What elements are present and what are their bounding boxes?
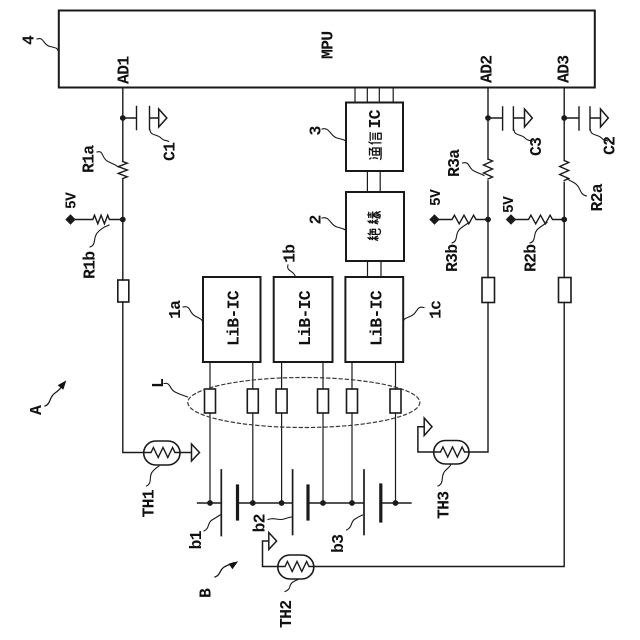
isolator box 2 — [346, 192, 404, 261]
svg-text:R2a: R2a — [588, 183, 607, 211]
svg-text:b3: b3 — [329, 534, 348, 553]
resistor R3a — [484, 159, 493, 179]
ground arrow of C2 — [601, 109, 609, 127]
bus comm IC to isolator — [367, 171, 380, 192]
svg-text:TH1: TH1 — [140, 489, 159, 517]
leader TH2 — [285, 580, 298, 592]
MPU box 4 — [59, 11, 595, 88]
leader C2 — [591, 130, 608, 141]
kanji en — [368, 212, 381, 224]
thermistor TH2 — [278, 555, 314, 579]
leader 1c — [403, 307, 424, 321]
capacitor C2 — [567, 107, 601, 130]
filter resistor box AD3 branch — [559, 278, 572, 303]
TH1 zigzag — [144, 448, 180, 458]
ground arrow of C1 — [159, 109, 167, 127]
TH3 lead and arrow — [418, 418, 434, 452]
svg-text:1b: 1b — [281, 244, 300, 263]
ground arrow of C3 — [525, 109, 533, 127]
leader 1b — [288, 265, 296, 277]
leader R1b — [90, 225, 109, 247]
arrow B head — [229, 561, 239, 569]
arrow B squiggle — [215, 563, 234, 577]
arrow A head — [58, 380, 67, 389]
svg-text:C1: C1 — [161, 142, 180, 161]
svg-text:R3b: R3b — [443, 244, 462, 272]
wire AD2 vertical — [469, 89, 488, 453]
svg-text:LiB-IC: LiB-IC — [296, 290, 315, 346]
thermistor TH1 — [144, 441, 180, 465]
leader 2 — [322, 218, 346, 231]
leader R3a — [463, 163, 485, 176]
battery b1 short plate — [236, 486, 239, 519]
resistor R1b — [76, 215, 123, 224]
fuse rect 4 — [318, 389, 329, 413]
svg-text:1c: 1c — [427, 301, 446, 319]
resistor R2b — [516, 215, 564, 224]
5V diamond supply right — [506, 214, 516, 224]
svg-text:TH3: TH3 — [435, 491, 454, 519]
filter resistor box AD2 branch — [482, 278, 495, 303]
svg-text:TH2: TH2 — [277, 601, 296, 628]
bus isolator to LiB-IC — [368, 261, 382, 277]
LiB-IC box 1b — [274, 277, 333, 362]
svg-text:5V: 5V — [65, 192, 81, 209]
kanji 通信 in comm IC — [366, 109, 385, 159]
svg-text:5V: 5V — [502, 196, 518, 213]
wires LiB-IC leads to fuse rects — [210, 362, 396, 389]
resistor R2a — [560, 161, 569, 181]
comm IC box 3 — [346, 103, 403, 172]
resistor R1a — [118, 162, 127, 179]
svg-text:2: 2 — [307, 215, 326, 224]
fuse rect 2 — [247, 389, 258, 413]
svg-text:1a: 1a — [166, 300, 185, 319]
battery bus wires — [198, 502, 412, 504]
leader C3 — [514, 130, 532, 142]
kanji zetsu — [368, 229, 380, 240]
kanji zetsuen in isolator — [368, 212, 381, 241]
leader b1 — [204, 515, 220, 531]
kanji tsu — [370, 148, 382, 160]
svg-text:5V: 5V — [429, 189, 445, 206]
thermistor TH3 — [434, 441, 469, 465]
leader R2a — [567, 179, 587, 197]
battery b2 long plate — [292, 470, 294, 535]
node R3b junction — [485, 217, 491, 223]
svg-text:AD3: AD3 — [555, 55, 574, 83]
svg-text:B: B — [197, 588, 216, 598]
svg-text:LiB-IC: LiB-IC — [368, 290, 387, 346]
svg-text:R2b: R2b — [522, 244, 541, 272]
fuse rect 1 — [205, 389, 216, 413]
svg-text:LiB-IC: LiB-IC — [225, 290, 244, 346]
node AD2/C3 junction — [485, 115, 491, 121]
svg-text:MPU: MPU — [319, 32, 338, 59]
battery b2 short plate — [306, 486, 309, 519]
leader C1 — [150, 130, 169, 142]
svg-text:3: 3 — [307, 126, 326, 136]
TH1 arrow — [180, 444, 200, 461]
svg-text:AD1: AD1 — [115, 56, 134, 84]
leader R3b — [452, 223, 469, 244]
LiB-IC box 1a — [203, 277, 261, 362]
svg-text:4: 4 — [20, 35, 39, 45]
wires fuse rects to battery bus — [210, 413, 396, 503]
resistor R3b — [440, 215, 488, 224]
filter resistor box AD1 branch — [118, 280, 129, 302]
svg-text:R1a: R1a — [80, 145, 99, 173]
kanji shin — [369, 133, 381, 145]
svg-text:C3: C3 — [527, 137, 546, 156]
node R2b junction — [561, 217, 567, 223]
svg-text:b2: b2 — [251, 514, 270, 532]
wire AD3 vertical and bottom run — [314, 89, 564, 567]
bus junction dots — [207, 500, 398, 506]
TH2 zigzag — [278, 562, 314, 572]
node R1b junction — [120, 217, 126, 223]
leader 1a — [183, 307, 203, 322]
5V diamond supply — [65, 214, 75, 224]
leader 3 — [322, 129, 346, 142]
dashed ellipse L — [188, 378, 420, 428]
leader for 4 — [37, 39, 59, 52]
svg-text:IC: IC — [366, 109, 385, 128]
fuse rect 5 — [347, 389, 358, 413]
TH2 lead and arrow — [263, 533, 278, 567]
leader R1a — [97, 152, 118, 167]
wire AD1 vertical — [123, 89, 144, 453]
battery b3 long plate — [363, 470, 365, 535]
node AD1/C1 junction — [120, 115, 126, 121]
leader b2 — [268, 517, 292, 520]
leader R2b — [530, 223, 547, 244]
battery b1 long plate — [220, 470, 222, 536]
fuse rect 3 — [276, 389, 287, 413]
bus MPU to comm IC — [355, 89, 393, 103]
svg-text:A: A — [27, 405, 46, 415]
svg-text:AD2: AD2 — [478, 56, 497, 83]
capacitor C3 — [491, 107, 525, 130]
node AD3/C2 junction — [561, 115, 567, 121]
leader L — [164, 383, 188, 397]
leader TH1 — [147, 466, 160, 486]
leader TH3 — [438, 465, 451, 487]
5V diamond supply mid — [429, 214, 439, 224]
capacitor C1 — [126, 107, 159, 130]
TH3 zigzag — [434, 447, 469, 457]
fuse rect 6 — [390, 389, 401, 413]
arrow A squiggle — [45, 385, 63, 406]
LiB-IC box 1c — [345, 277, 403, 362]
svg-text:R1b: R1b — [81, 251, 100, 279]
leader b3 — [347, 515, 363, 530]
battery b3 short plate — [379, 485, 382, 521]
svg-text:R3a: R3a — [445, 149, 464, 177]
svg-text:b1: b1 — [187, 530, 206, 549]
